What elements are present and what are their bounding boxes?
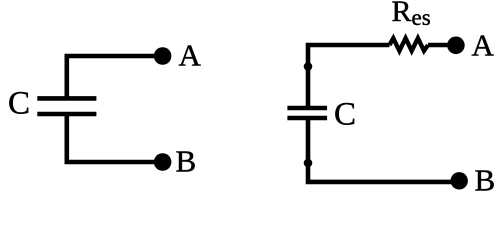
capacitor C (right circuit) top plate — [287, 106, 327, 111]
wire: right circuit vertical from capacitor bottom plate + bottom horizontal — [308, 120, 452, 182]
node B terminal dot (left circuit) — [154, 153, 172, 171]
wire: left circuit vertical from capacitor bottom plate + bottom horizontal — [67, 116, 158, 163]
node B terminal dot (right circuit) — [451, 172, 468, 189]
svg-text:C: C — [334, 96, 356, 132]
node A terminal dot (right circuit) — [447, 37, 465, 55]
svg-text:A: A — [472, 28, 495, 63]
wire: right circuit top horizontal + left vertical down to capacitor top plate — [308, 45, 390, 106]
svg-text:R: R — [392, 0, 412, 28]
capacitor C (right circuit) bottom plate — [287, 116, 327, 121]
svg-text:B: B — [176, 144, 197, 179]
junction dot upper (right circuit) — [304, 62, 313, 71]
wire: resistor to terminal A (right circuit) — [428, 43, 451, 48]
svg-text:C: C — [8, 85, 30, 121]
node A terminal dot (left circuit) — [154, 47, 172, 65]
svg-text:B: B — [475, 163, 496, 195]
wire: left circuit top horizontal + left vertical down to capacitor top plate — [67, 56, 158, 97]
resistor R_es zigzag — [390, 38, 429, 51]
svg-text:A: A — [179, 38, 202, 73]
svg-text:es: es — [412, 5, 431, 30]
capacitor C (left circuit) top plate — [37, 96, 96, 101]
junction dot lower (right circuit) — [304, 159, 313, 168]
capacitor C (left circuit) bottom plate — [37, 112, 96, 117]
